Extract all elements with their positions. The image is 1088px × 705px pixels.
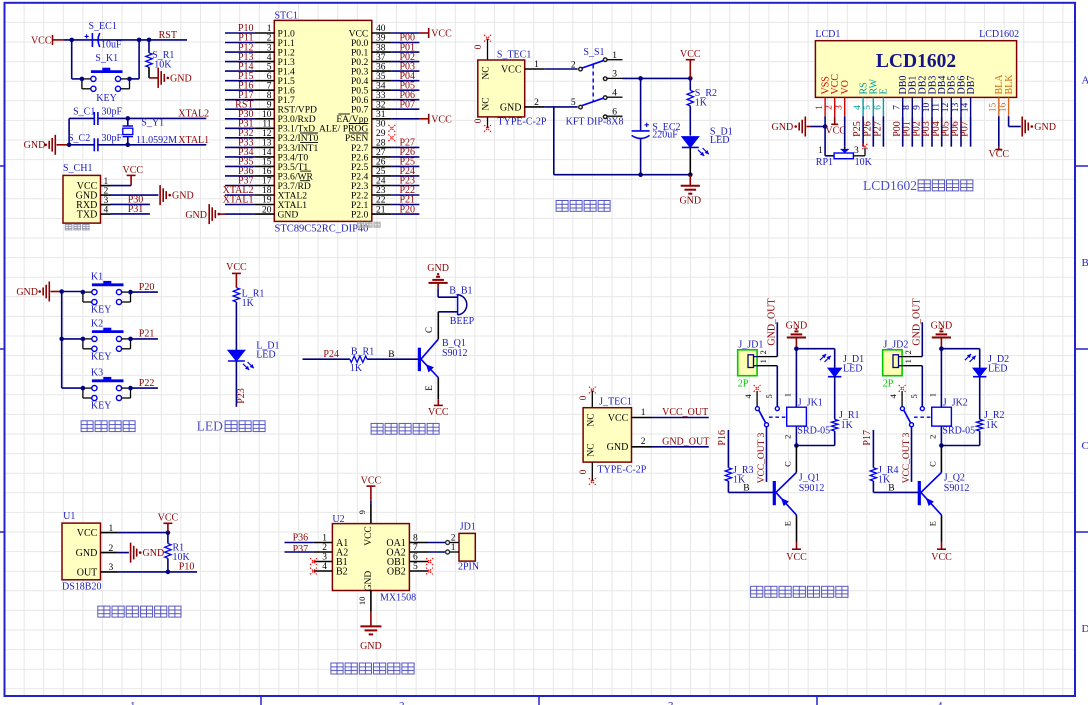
svg-text:1: 1 [818, 146, 823, 156]
svg-text:P24: P24 [323, 349, 339, 360]
svg-text:MX1508: MX1508 [380, 593, 416, 604]
connector S_CH1 body [63, 175, 101, 223]
svg-text:LCD1602: LCD1602 [863, 178, 917, 193]
svg-text:KEY: KEY [91, 351, 112, 362]
svg-text:E: E [927, 521, 937, 526]
junction LED bottom [688, 172, 693, 177]
svg-text:VCC: VCC [361, 475, 382, 486]
svg-text:GND: GND [16, 287, 38, 298]
wire relay coil pin2 [940, 426, 942, 445]
wire resistor to coil rail [979, 431, 981, 446]
relay J_JK1 lever [759, 410, 766, 423]
svg-text:2: 2 [758, 350, 768, 354]
svg-text:GND: GND [607, 442, 629, 453]
svg-text:GND: GND [360, 641, 382, 652]
svg-text:LCD1602: LCD1602 [876, 51, 956, 72]
capacitor S_C1 [93, 112, 95, 125]
svg-text:GND: GND [1034, 122, 1056, 133]
ground at S_CH1 pin2 [111, 194, 159, 196]
wire emitter J_Q2 [941, 515, 943, 541]
svg-text:GND: GND [185, 210, 207, 221]
ground below S_R1 [149, 77, 158, 79]
wire GND rail power circuit [553, 107, 555, 175]
svg-text:OB2: OB2 [387, 566, 406, 577]
wire P36 [285, 542, 314, 544]
svg-text:1: 1 [758, 359, 768, 363]
svg-text:SRD-05: SRD-05 [797, 426, 830, 437]
caption temperature module [98, 606, 110, 617]
svg-text:30pF: 30pF [102, 133, 123, 144]
svg-text:GND: GND [172, 191, 194, 202]
svg-text:1: 1 [903, 359, 913, 363]
junction cap bottom [638, 172, 643, 177]
STC1 right wires and net labels [392, 32, 420, 34]
svg-text:3: 3 [668, 700, 674, 705]
svg-text:B_R1: B_R1 [351, 346, 374, 357]
svg-text:GND: GND [76, 548, 98, 559]
svg-text:P20: P20 [400, 204, 416, 215]
svg-text:VCC: VCC [428, 407, 449, 418]
wire collector J_Q2 [940, 446, 942, 473]
svg-text:U1: U1 [63, 511, 75, 522]
power port VCC at STC1 pin 31 [419, 118, 428, 120]
svg-text:1: 1 [130, 700, 136, 705]
svg-text:220uF: 220uF [652, 130, 678, 141]
svg-text:B_B1: B_B1 [449, 285, 472, 296]
svg-text:NC: NC [482, 66, 492, 79]
wire K1 to P20 [131, 291, 158, 293]
svg-text:B: B [743, 484, 749, 494]
wire VCC_OUT J_JK2 [911, 427, 913, 482]
svg-text:LED: LED [710, 135, 729, 146]
capacitor S_C2 [93, 138, 95, 151]
J_TEC1 pin 2 wire [632, 446, 652, 448]
svg-text:A: A [1082, 74, 1088, 86]
svg-text:VCC: VCC [931, 552, 952, 563]
svg-text:J_Q1: J_Q1 [799, 472, 820, 483]
svg-text:XTAL2: XTAL2 [178, 109, 209, 120]
wire resistor to coil rail [834, 431, 836, 446]
svg-text:1: 1 [928, 393, 938, 397]
svg-text:2: 2 [825, 105, 835, 110]
svg-text:E: E [879, 88, 890, 94]
junction K1 right [128, 290, 133, 295]
power port VCC at STC1 pin 40 [419, 32, 428, 34]
capacitor S_EC1 10uF [91, 33, 93, 47]
svg-text:S_K1: S_K1 [95, 53, 118, 64]
svg-text:P31: P31 [128, 204, 144, 215]
sensor U1 body [62, 523, 101, 580]
wire collector J_Q1 [795, 446, 797, 473]
connector J_JD1 body [738, 350, 757, 376]
resistor J_R1 [832, 419, 838, 431]
junction key rail 2 [59, 337, 64, 342]
relay J_JK2 dashed link [914, 416, 932, 418]
svg-text:LED: LED [197, 419, 223, 434]
no-connect stub 0 above J_TEC1 [591, 391, 593, 408]
svg-text:2: 2 [928, 435, 938, 439]
svg-text:0: 0 [579, 469, 589, 474]
svg-text:J_JK2: J_JK2 [943, 397, 968, 408]
junction K2 right [128, 337, 133, 342]
wire GND_OUT J_JD1 [776, 322, 778, 356]
connector J_JD2 body [883, 350, 902, 376]
svg-text:XTAL1: XTAL1 [178, 135, 209, 146]
svg-text:4: 4 [612, 89, 617, 99]
svg-text:K1: K1 [91, 272, 103, 283]
svg-text:P23: P23 [236, 388, 247, 404]
svg-text:3: 3 [854, 146, 859, 156]
svg-text:5: 5 [571, 98, 576, 108]
junction K2 left [81, 337, 86, 342]
svg-text:3: 3 [612, 70, 617, 80]
capacitor S_EC2 [640, 78, 642, 130]
junction LCD pin1 [823, 124, 828, 129]
buzzer B_B1 [457, 294, 459, 315]
wire OA2 to JD1 [428, 551, 446, 553]
wire J_JD1 pin1 to contact5 [776, 366, 778, 407]
svg-text:10uF: 10uF [101, 40, 122, 51]
svg-text:VCC: VCC [31, 35, 52, 46]
ground U1 pin2 [118, 552, 129, 554]
J_JD1 pin stubs [757, 356, 777, 358]
svg-text:GND_OUT: GND_OUT [662, 437, 709, 448]
svg-text:RST: RST [159, 30, 177, 41]
svg-text:5: 5 [764, 394, 774, 398]
svg-text:D: D [1082, 623, 1088, 635]
svg-text:NC: NC [587, 443, 597, 456]
junction node B [137, 38, 142, 43]
wire base J_Q1 [727, 481, 729, 492]
junction gnd rail J_JK2 [939, 346, 944, 351]
svg-text:J_JK1: J_JK1 [798, 397, 823, 408]
wire P17 net [872, 430, 874, 468]
junction VCC R1 [166, 530, 171, 535]
svg-text:3: 3 [835, 105, 845, 110]
transistor J_Q1 [773, 481, 776, 505]
wire base J_Q2 [872, 481, 874, 492]
caption key circuit [81, 421, 93, 432]
svg-text:P27: P27 [873, 121, 884, 137]
svg-text:1: 1 [451, 543, 456, 553]
caption relay control circuit [751, 586, 763, 597]
svg-text:S9012: S9012 [799, 483, 825, 494]
svg-text:VCC_OUT 3: VCC_OUT 3 [902, 432, 912, 483]
svg-text:2PIN: 2PIN [458, 562, 479, 573]
caption buzzer circuit [371, 423, 383, 434]
svg-text:VCC: VCC [825, 125, 846, 136]
resistor R1 [167, 533, 169, 544]
svg-text:GND: GND [500, 102, 522, 113]
J_JD2 inner pins [893, 355, 899, 368]
svg-text:2: 2 [571, 60, 576, 70]
svg-text:GND: GND [427, 263, 449, 274]
relay J_JK2 contact circles [900, 407, 904, 411]
wire BLA to VCC [998, 116, 1000, 147]
svg-text:10: 10 [922, 103, 932, 113]
svg-text:2P: 2P [738, 379, 749, 390]
junction node A [69, 38, 74, 43]
svg-text:B: B [888, 484, 894, 494]
svg-text:KEY: KEY [91, 401, 112, 412]
svg-text:16: 16 [999, 103, 1009, 113]
RP1 pin3 [853, 155, 865, 157]
LED J_D1 [828, 368, 841, 377]
J_TEC1 pin 1 wire [632, 417, 652, 419]
svg-text:B2: B2 [336, 566, 348, 577]
switch S_S1 DIP switch [603, 58, 607, 62]
svg-text:VCC: VCC [123, 165, 144, 176]
svg-text:TYPE-C-2P: TYPE-C-2P [498, 116, 547, 127]
svg-text:VO: VO [840, 80, 851, 94]
LCD1 body [815, 41, 1016, 98]
no-connect U2 pin4 [310, 568, 317, 575]
svg-text:C: C [1082, 440, 1088, 452]
svg-text:P21: P21 [139, 329, 155, 340]
connector J_TEC1 body [583, 408, 631, 462]
wire J_JD2 pin1 to contact5 [921, 366, 923, 407]
svg-text:1: 1 [783, 393, 793, 397]
S_TEC1 pin 2 [525, 106, 545, 108]
svg-text:VCC: VCC [226, 262, 247, 273]
wire key gnd rail [62, 291, 82, 293]
svg-text:2: 2 [534, 98, 539, 108]
svg-text:DS18B20: DS18B20 [62, 581, 101, 592]
key switch K3 [92, 379, 124, 382]
svg-text:S9012: S9012 [442, 348, 468, 359]
junction K3 left [81, 386, 86, 391]
svg-text:C: C [782, 461, 792, 467]
svg-text:VCC: VCC [77, 528, 98, 539]
svg-text:29: 29 [376, 129, 386, 139]
svg-text:1: 1 [612, 51, 617, 61]
svg-text:7: 7 [893, 105, 903, 110]
wire P31 [111, 213, 150, 215]
svg-text:TYPE-C-2P: TYPE-C-2P [597, 465, 646, 476]
svg-text:3: 3 [109, 563, 114, 573]
svg-text:GND_OUT: GND_OUT [766, 298, 777, 345]
LED L_D1 [228, 350, 245, 361]
svg-text:P2.0: P2.0 [351, 210, 369, 221]
key switch S_K1 [91, 70, 123, 73]
resistor J_R2 [977, 419, 983, 431]
connector JD1 body [459, 533, 475, 561]
wire K2 to P21 [131, 338, 158, 340]
svg-text:E: E [782, 521, 792, 526]
svg-text:LED: LED [843, 363, 862, 374]
no-connect U2 pin6 [426, 558, 433, 565]
svg-text:6: 6 [873, 105, 883, 110]
relay J_JK1 body [787, 407, 807, 426]
no-connect contact 4 J_JK2 [899, 385, 906, 392]
wire relay coil pin1 [795, 349, 797, 408]
junction node C [147, 38, 152, 43]
wire VCC_OUT J_JK1 [766, 427, 768, 482]
svg-text:2: 2 [104, 186, 109, 196]
junction K1 left [81, 290, 86, 295]
svg-text:VCC: VCC [158, 513, 179, 524]
svg-text:9: 9 [357, 510, 367, 514]
J_JD1 inner pins [748, 355, 754, 368]
resistor J_R4 [870, 468, 876, 481]
STC1 pin stubs [254, 32, 274, 34]
power port VCC J_Q2 [937, 548, 946, 550]
ground motor [360, 625, 381, 627]
svg-text:TXD: TXD [77, 210, 98, 221]
JD1 pin stubs [446, 541, 450, 545]
svg-text:P37: P37 [293, 544, 309, 555]
junction crystal bottom [126, 143, 131, 148]
wire emitter J_Q1 [796, 515, 798, 541]
op-amp STC1 body rectangle [274, 20, 372, 221]
wire gnd rail to LED J_D1 [796, 348, 834, 350]
svg-text:S_S1: S_S1 [583, 47, 604, 58]
svg-text:8: 8 [902, 105, 912, 110]
wire LED to resistor J_R1 [834, 376, 836, 419]
svg-text:0: 0 [474, 44, 484, 49]
wire P37 [285, 551, 314, 553]
wire S_S1 out to VCC rail [623, 77, 691, 79]
wire relay coil pin1 [940, 349, 942, 408]
svg-text:VCC: VCC [786, 552, 807, 563]
svg-text:1K: 1K [350, 363, 363, 374]
power port VCC LCD pin2 [834, 116, 836, 124]
svg-text:BEEP: BEEP [450, 316, 475, 327]
transistor B_Q1 [418, 348, 421, 371]
svg-text:3: 3 [104, 196, 109, 206]
svg-text:10K: 10K [154, 59, 172, 70]
svg-text:S_C1: S_C1 [73, 107, 95, 118]
svg-text:2: 2 [109, 544, 114, 554]
svg-text:BLK: BLK [1004, 74, 1015, 95]
svg-text:30: 30 [376, 120, 386, 130]
svg-text:4: 4 [104, 205, 109, 215]
svg-text:NC: NC [587, 413, 597, 426]
svg-text:VCC: VCC [501, 64, 522, 75]
junction key rail 1 [59, 289, 64, 294]
wire junction A to key left [71, 40, 73, 79]
svg-text:GND: GND [24, 140, 46, 151]
svg-text:1K: 1K [242, 298, 255, 309]
svg-text:S_Y1: S_Y1 [141, 117, 164, 128]
junction VCC drop [688, 76, 693, 81]
resistor L_R1 [233, 288, 239, 302]
potentiometer RP1 body [834, 153, 853, 159]
wire P30 [111, 203, 150, 205]
wire gnd rail to LED J_D2 [941, 348, 979, 350]
svg-text:2: 2 [451, 533, 456, 543]
svg-text:JD1: JD1 [460, 522, 476, 533]
svg-text:2: 2 [641, 437, 646, 447]
svg-text:B: B [1082, 257, 1088, 269]
svg-text:P22: P22 [139, 378, 155, 389]
svg-text:P36: P36 [293, 532, 309, 543]
svg-text:5: 5 [863, 105, 873, 110]
wire VO to wiper [844, 116, 846, 147]
svg-text:LCD1: LCD1 [815, 29, 840, 40]
svg-text:GND: GND [364, 571, 374, 592]
junction K3 right [128, 386, 133, 391]
J_JD2 pin stubs [902, 356, 922, 358]
svg-text:P20: P20 [139, 282, 155, 293]
svg-text:GND: GND [679, 196, 701, 207]
power port VCC buzzer [434, 404, 443, 406]
LCD1 data wires [862, 116, 864, 147]
svg-text:KEY: KEY [96, 93, 117, 104]
wire XTAL2 net [69, 117, 94, 119]
svg-text:VCC: VCC [431, 29, 452, 40]
svg-text:SRD-05: SRD-05 [942, 426, 975, 437]
junction crystal top [126, 116, 131, 121]
caption DC motor circuit [331, 663, 343, 674]
wire relay coil pin2 [795, 426, 797, 445]
driver U2 body [332, 524, 409, 591]
wire gnd to buzzer [438, 296, 458, 298]
svg-text:4: 4 [937, 700, 943, 705]
connector S_TEC1 body [478, 60, 525, 117]
svg-text:P07: P07 [960, 121, 971, 137]
junction cap top [638, 76, 643, 81]
svg-text:LED: LED [256, 350, 275, 361]
svg-text:P17: P17 [862, 430, 873, 446]
svg-text:4: 4 [853, 105, 863, 110]
svg-text:1: 1 [109, 524, 114, 534]
svg-text:2: 2 [399, 700, 405, 705]
svg-text:VCC_OUT 3: VCC_OUT 3 [757, 432, 767, 483]
svg-text:VCC: VCC [364, 526, 374, 546]
svg-text:LED: LED [988, 363, 1007, 374]
S_TEC1 pin 1 [525, 68, 545, 70]
wire VCC to RST node [63, 39, 187, 41]
wire buzzer to collector [438, 311, 457, 313]
svg-text:LCD1602: LCD1602 [979, 29, 1019, 40]
wire GND_OUT J_JD2 [921, 322, 923, 356]
wire U1 pin3 P10 [118, 571, 197, 573]
svg-text:1: 1 [534, 60, 539, 70]
no-connect U2 pin3 [310, 558, 317, 565]
svg-text:1K: 1K [695, 98, 708, 109]
svg-text:0: 0 [579, 395, 589, 400]
resistor J_R3 [725, 468, 731, 481]
svg-text:2: 2 [783, 435, 793, 439]
relay J_JK1 dashed link [769, 416, 787, 418]
wire P24 to base [303, 358, 350, 360]
svg-text:S_TEC1: S_TEC1 [497, 49, 531, 60]
wire K3 to P22 [131, 387, 158, 389]
svg-text:0: 0 [474, 118, 484, 123]
STC1 chinese note [358, 222, 364, 227]
ground right of LCD1 [1021, 117, 1023, 137]
wire junction B to key right [138, 40, 140, 79]
svg-text:S_C2: S_C2 [68, 133, 90, 144]
svg-text:30pF: 30pF [102, 107, 123, 118]
power port VCC J_Q1 [792, 548, 801, 550]
no-connect stub 0 below J_TEC1 [591, 462, 593, 481]
wire U1 pin1 to VCC [118, 532, 168, 534]
svg-text:C: C [927, 461, 937, 467]
svg-text:1K: 1K [986, 420, 999, 431]
junction S_C2 left [67, 143, 72, 148]
svg-text:KFT DIP-8X8: KFT DIP-8X8 [566, 116, 624, 127]
svg-text:P10: P10 [179, 562, 195, 573]
svg-text:9: 9 [912, 105, 922, 110]
svg-text:10K: 10K [855, 157, 873, 168]
svg-text:S9012: S9012 [944, 483, 970, 494]
LED J_D2 [973, 368, 986, 377]
wire LCD pin1 down to RP1 [824, 116, 826, 156]
svg-text:GND: GND [170, 73, 192, 84]
svg-text:GND: GND [143, 548, 165, 559]
